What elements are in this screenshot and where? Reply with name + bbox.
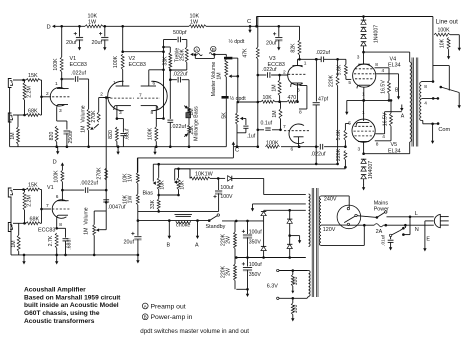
svg-text:choke: choke [176, 223, 190, 229]
resistor 270K mix ch2 [97, 167, 108, 180]
svg-text:Com: Com [438, 127, 450, 133]
diode HT D3 [287, 210, 292, 235]
svg-text:1: 1 [55, 81, 58, 87]
V2b grid [137, 93, 160, 99]
resistor 5.6K V4 grid [337, 59, 352, 86]
pot wiper treble [190, 53, 193, 56]
capacitor .0022uf ch2 [62, 181, 107, 193]
svg-text:1M: 1M [10, 132, 16, 139]
svg-text:G60T chassis, using the: G60T chassis, using the [24, 310, 100, 317]
node A marker [194, 47, 199, 53]
pot wiper bias 2 [174, 169, 177, 184]
svg-text:47pf: 47pf [318, 97, 329, 103]
V5 plate [358, 142, 370, 154]
svg-text:1M Volume: 1M Volume [80, 105, 86, 133]
wire 47K down [257, 75, 260, 147]
capacitor 100uf 350V 1 [242, 221, 262, 258]
node B supply [395, 88, 400, 100]
svg-text:ECC83: ECC83 [70, 62, 87, 68]
svg-text:2A: 2A [376, 229, 383, 235]
ground arrow rail1 a [56, 147, 59, 155]
wire jack grounds ch1 [9, 88, 11, 147]
svg-text:10K: 10K [179, 180, 185, 190]
capacitor .68uf V2a [120, 119, 130, 147]
svg-text:68K: 68K [30, 216, 40, 222]
ground arrow E [423, 237, 430, 252]
wire V3b grid line [258, 129, 281, 131]
svg-text:250uf: 250uf [68, 130, 74, 144]
svg-text:10K: 10K [190, 14, 200, 20]
capacitor .01uf deathcap [380, 234, 393, 245]
wire speaker switch feed [433, 66, 449, 91]
resistor 1M ch1 [10, 115, 19, 147]
resistor 16.5V V5 cathode [383, 99, 393, 126]
resistor 1M V3b grid [272, 102, 282, 131]
label V4 EL34 [388, 57, 401, 69]
svg-text:250K: 250K [179, 48, 185, 61]
capacitor .1uf presence [237, 119, 256, 140]
svg-text:2.7K: 2.7K [48, 235, 54, 246]
tube V2b [151, 81, 167, 110]
label V1 ECC83 [70, 56, 87, 68]
transformer PT primary [319, 196, 321, 245]
svg-text:.022uf: .022uf [262, 67, 277, 73]
svg-text:3: 3 [358, 147, 361, 153]
ground arrow B [167, 221, 172, 249]
svg-text:5: 5 [348, 80, 351, 86]
pot wiper volume 1 [90, 124, 99, 130]
tube V5 [352, 119, 375, 142]
capacitor 0.1uf V3b [261, 121, 273, 131]
svg-text:N: N [415, 227, 419, 233]
svg-text:A: A [195, 243, 199, 249]
svg-text:100K: 100K [113, 55, 119, 68]
svg-text:Preamp out: Preamp out [151, 303, 186, 310]
svg-text:100K: 100K [53, 58, 59, 71]
resistor 68K ch1 [13, 109, 42, 117]
resistor 100K follower load [148, 119, 158, 147]
legend dpdt [140, 328, 249, 335]
ground arrow humdinger 2 [291, 315, 294, 322]
ground arrow A [195, 221, 199, 249]
resistor 10K1W dropper b [123, 184, 140, 221]
switch half-dpdt B [209, 53, 215, 56]
wire bias line B [175, 168, 346, 171]
wire L2 right [222, 220, 264, 223]
svg-text:1W: 1W [190, 20, 199, 26]
svg-text:B: B [167, 243, 171, 249]
svg-text:1M Volume: 1M Volume [84, 207, 90, 235]
svg-text:½ dpdt: ½ dpdt [229, 38, 245, 45]
svg-text:100V: 100V [220, 194, 233, 200]
resistor 10K V3 [258, 95, 287, 103]
pot wiper bass [184, 105, 188, 108]
svg-text:8: 8 [59, 222, 62, 228]
label V1 lower [47, 185, 54, 191]
diode chain 1N4007 V4 [361, 17, 380, 54]
plug mains [434, 214, 448, 227]
V4 cathode bar [357, 85, 370, 88]
ground arrow speaker [458, 93, 461, 109]
diode HT D1 [261, 210, 266, 221]
voltage selector [337, 205, 361, 229]
capacitor .022uf to V5 [311, 144, 326, 158]
svg-text:7: 7 [46, 203, 49, 209]
jack input 2 lo [8, 113, 12, 122]
pot Master Volume 1M [211, 59, 228, 96]
svg-text:7: 7 [139, 93, 142, 99]
diode chain 1N4007 V5 [361, 152, 374, 190]
wire 47pf to biasline [315, 147, 317, 164]
node Com [431, 122, 450, 133]
resistor 2.2M ch2 [23, 190, 32, 224]
pot Presence 5K [222, 102, 239, 148]
resistor 5.6K V5 grid [336, 124, 349, 141]
svg-text:Acoushall Amplifier: Acoushall Amplifier [24, 286, 86, 293]
wire bias line A [153, 163, 337, 166]
wire ground rail 1 [10, 145, 227, 148]
transformer PT core [312, 188, 318, 297]
svg-text:Power-amp in: Power-amp in [151, 314, 193, 321]
wire L to pole2 [402, 217, 410, 236]
label half dpdt 1 [229, 38, 245, 45]
wire C rail to top rail [256, 17, 258, 27]
ground arrow PSU [246, 289, 249, 297]
V4 screen wire [376, 68, 399, 91]
label 6.3V [267, 283, 278, 289]
svg-text:20uf: 20uf [66, 40, 77, 46]
svg-text:.1uf: .1uf [247, 133, 256, 139]
resistor 10K1W bias feed [175, 169, 220, 180]
svg-text:Line out: Line out [436, 18, 458, 25]
wire to V4 grid [324, 58, 346, 61]
label Mains Power [374, 200, 389, 212]
svg-text:8: 8 [151, 110, 154, 116]
svg-text:20uf: 20uf [92, 40, 103, 46]
resistor 2.2M ch1 [23, 80, 32, 115]
svg-text:1W: 1W [128, 196, 134, 204]
V3a cathode bracket [299, 86, 307, 116]
label ECC83 lower [38, 228, 55, 234]
resistor 220K bleeder 1 [221, 221, 237, 258]
wire L [387, 211, 434, 218]
capacitor 20uf filter 1 [66, 26, 83, 46]
V1b grid [40, 203, 69, 210]
svg-text:240V: 240V [324, 196, 337, 202]
wire supply rail D [56, 25, 300, 28]
resistor 220K bleeder 2 [221, 258, 237, 290]
switch mains pole 2 [389, 225, 405, 236]
svg-text:.68uf: .68uf [66, 238, 72, 250]
svg-text:6.3V: 6.3V [267, 283, 278, 289]
wire top-right rail [257, 15, 433, 18]
svg-text:dpdt switches master volume in: dpdt switches master volume in and out [140, 328, 249, 335]
svg-text:100: 100 [293, 305, 299, 314]
V3a plate [293, 59, 307, 66]
V5 cathode bar [356, 123, 369, 126]
svg-text:270K: 270K [91, 110, 97, 123]
wire V3b out [298, 145, 301, 148]
wire AB link [195, 54, 214, 58]
svg-text:1W: 1W [88, 20, 97, 26]
ground arrow D3 junction [290, 236, 302, 244]
capacitor 250uf V1a [64, 130, 74, 147]
ground arrow line out right [458, 35, 461, 51]
svg-text:7: 7 [283, 124, 286, 130]
V4 plate [357, 52, 370, 64]
pot wiper volume 2 [96, 228, 106, 231]
resistor 33K slope [162, 47, 171, 69]
svg-text:3: 3 [119, 110, 122, 116]
capacitor 47pf [313, 58, 329, 147]
capacitor .0047uf ch2 [103, 200, 126, 211]
svg-text:82K: 82K [290, 43, 296, 53]
capacitor 100uf 350V 2 [242, 258, 262, 290]
wire C feed line [137, 158, 233, 173]
V3a grid [288, 73, 307, 75]
svg-text:20uf: 20uf [124, 240, 135, 246]
label V5 EL34 [388, 142, 401, 155]
wire E [425, 221, 434, 247]
svg-text:Midrange: Midrange [194, 119, 200, 141]
wire rail L2 [137, 219, 211, 222]
tube V4 [353, 64, 376, 87]
svg-text:100K: 100K [53, 170, 59, 183]
resistor 100 humdinger 1 [291, 271, 299, 287]
wire tone stack left [162, 40, 165, 120]
ground arrow 20uf [136, 255, 139, 264]
resistor 100K V1b plate [53, 170, 64, 201]
OT tap 8 [421, 80, 434, 90]
wire bias filter L1 [138, 210, 219, 212]
capacitor .022uf coupling 1 [62, 71, 89, 82]
capacitor 100uf 100V bias [213, 178, 234, 211]
V2b plate [141, 70, 164, 87]
svg-text:2: 2 [100, 92, 103, 98]
svg-text:350V: 350V [249, 272, 262, 278]
wire HT tap line [264, 209, 306, 212]
node B marker [211, 46, 216, 52]
wire V2 plate to tone [123, 51, 164, 53]
heater terminal 2 [277, 297, 307, 300]
ground arrow rail2 a [22, 255, 25, 265]
svg-text:built inside an Acoustic Model: built inside an Acoustic Model [24, 302, 119, 309]
wire master out [232, 58, 239, 102]
svg-text:16.5V: 16.5V [380, 80, 386, 94]
resistor 1M V3 grid [271, 74, 281, 102]
svg-text:820: 820 [49, 132, 55, 141]
svg-text:100uf: 100uf [249, 262, 263, 268]
svg-text:1: 1 [362, 110, 365, 116]
svg-text:47K: 47K [243, 48, 249, 58]
svg-text:8: 8 [375, 62, 378, 68]
svg-text:B: B [212, 47, 215, 52]
svg-text:4: 4 [382, 134, 385, 140]
svg-text:1: 1 [362, 92, 365, 98]
heater terminal 1 [277, 269, 307, 272]
V3b grid dash [283, 124, 309, 131]
svg-text:Mains: Mains [374, 200, 389, 206]
svg-text:1: 1 [113, 80, 116, 86]
svg-text:V1: V1 [47, 185, 54, 191]
ground arrow filter 2 [103, 40, 106, 51]
V1a cathode [57, 105, 68, 122]
ground arrow filter 1 [78, 40, 81, 51]
resistor 82K V3a plate [290, 26, 301, 59]
svg-text:1N4007: 1N4007 [368, 161, 374, 179]
wire PSU bottom [236, 288, 249, 291]
svg-text:5.6K: 5.6K [336, 129, 342, 140]
ground arrow deathcap [389, 242, 392, 250]
svg-text:E: E [426, 237, 430, 243]
V4 cathode lead [362, 87, 365, 102]
svg-text:20uf: 20uf [266, 41, 277, 47]
transformer PT HT winding [309, 194, 311, 247]
wire tone node X [169, 69, 187, 79]
jack input 3 [8, 188, 12, 197]
switch speaker select [440, 86, 460, 93]
svg-text:.022uf: .022uf [316, 50, 331, 56]
svg-text:10K: 10K [160, 180, 166, 190]
V3b plate [291, 137, 304, 153]
svg-text:10K: 10K [440, 38, 446, 48]
svg-text:Bass: Bass [194, 106, 200, 118]
V1b plate [56, 194, 69, 201]
pot Bass 1M [186, 80, 200, 125]
capacitor .022uf mid [167, 120, 186, 147]
resistor 10K line out [440, 38, 450, 50]
svg-text:10K: 10K [88, 14, 98, 20]
svg-text:350V: 350V [249, 239, 262, 245]
svg-text:2: 2 [283, 70, 286, 76]
svg-text:4: 4 [424, 101, 427, 107]
resistor 15K ch1 [13, 73, 42, 81]
svg-text:C: C [235, 148, 239, 154]
wire presence line [237, 101, 260, 104]
wire grid node ch1 [41, 80, 43, 115]
V2a cathode [114, 106, 131, 119]
transformer PT heater winding [309, 271, 311, 297]
wire V2a cathode node [116, 117, 124, 120]
node D [47, 24, 57, 30]
tube V2a [108, 81, 124, 110]
capacitor 500pf treble [164, 30, 187, 42]
pot Midrange 25K [188, 119, 200, 147]
V1a plate [55, 78, 69, 89]
ground arrow rail2 b [55, 255, 58, 265]
diode HT D4 [287, 234, 292, 259]
fuse 2A [348, 224, 387, 236]
resistor 10K bias 2 [177, 169, 185, 190]
svg-text:1W: 1W [128, 174, 134, 182]
resistor 68K ch2 [13, 216, 42, 224]
svg-text:ECC83: ECC83 [129, 62, 146, 68]
svg-text:EL34: EL34 [388, 63, 401, 69]
transformer OT primary [410, 62, 412, 142]
V4 pin8 wire [375, 62, 390, 81]
svg-text:2.2M: 2.2M [26, 86, 32, 98]
capacitor 20uf filter 2 [92, 26, 109, 46]
wire bias pots join [157, 190, 179, 197]
V5 screen wire [375, 112, 402, 140]
pot Treble 250K [175, 40, 189, 71]
svg-text:D: D [47, 24, 51, 30]
pot Volume 1M ch2 [84, 207, 107, 255]
wire line out feed [432, 17, 434, 82]
wire cathode common [347, 99, 391, 102]
switch mains pole 1 [377, 211, 387, 218]
svg-text:8: 8 [424, 84, 427, 90]
pot wiper bias 1 [153, 164, 156, 185]
switch dpdt body 2 [222, 96, 229, 99]
svg-text:Based on Marshall 1959 circuit: Based on Marshall 1959 circuit [24, 294, 121, 301]
capacitor .022uf V3a grid [257, 67, 288, 78]
svg-text:2W: 2W [226, 236, 232, 244]
svg-text:B: B [144, 315, 147, 320]
V2b cathode [141, 106, 158, 119]
svg-text:4: 4 [382, 68, 385, 74]
label V2 ECC83 [129, 56, 146, 68]
switch dpdt body 1 [224, 57, 232, 60]
label Line out [436, 18, 458, 25]
V3a cathode [291, 83, 303, 102]
svg-text:L: L [415, 211, 418, 217]
wire X down [169, 80, 171, 119]
wire 240V [321, 196, 349, 208]
ground arrow line out mid [447, 49, 450, 59]
svg-text:3: 3 [297, 88, 300, 94]
resistor 1M ch2 [11, 223, 20, 255]
svg-text:Acoustic transformers: Acoustic transformers [24, 318, 95, 325]
resistor 470 V3 [278, 95, 299, 103]
resistor 820 V2a [108, 127, 118, 147]
V5 grids [354, 126, 375, 136]
resistor 100K V2a plate [113, 26, 124, 86]
svg-text:.022uf: .022uf [71, 71, 86, 77]
V2a plate [113, 80, 129, 86]
svg-text:3: 3 [59, 108, 62, 114]
tube V1a [50, 88, 64, 107]
resistor 100K V1a plate [53, 26, 63, 79]
wire V3 ground segment [234, 145, 346, 148]
svg-text:6: 6 [56, 194, 59, 200]
pot wiper presence [240, 117, 246, 120]
wire 120V [321, 225, 347, 233]
pot wiper mid [184, 134, 188, 137]
resistor 270K mix ch1 [91, 98, 106, 123]
svg-text:100uf: 100uf [220, 185, 234, 191]
svg-text:.022uf: .022uf [311, 152, 326, 158]
wire jack grounds ch2 [10, 198, 12, 255]
svg-text:1M: 1M [272, 110, 278, 117]
svg-text:2.2M: 2.2M [26, 195, 32, 207]
svg-text:100K: 100K [148, 127, 154, 140]
choke [175, 215, 192, 229]
legend A [142, 303, 185, 310]
resistor 100 humdinger 2 [291, 298, 299, 314]
svg-text:ECC83: ECC83 [38, 228, 55, 234]
svg-text:Bias: Bias [143, 191, 154, 197]
svg-text:500pf: 500pf [173, 30, 187, 36]
svg-text:8: 8 [299, 110, 302, 116]
svg-text:.022uf: .022uf [173, 71, 188, 77]
svg-text:C: C [247, 19, 251, 25]
capacitor 20uf L2 [124, 221, 142, 257]
node V2a grid [100, 92, 110, 99]
svg-text:.0022uf: .0022uf [80, 181, 98, 187]
resistor 15K ch2 [13, 183, 42, 191]
V5 pin8 wire [375, 126, 391, 147]
